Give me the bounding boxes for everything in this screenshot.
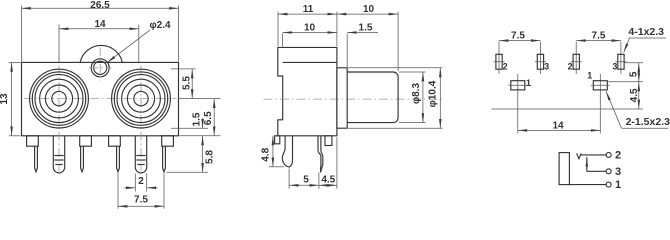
dim 4.5 [319,138,337,189]
dim 10 barrel [337,4,398,71]
hole centerline vertical [99,48,101,82]
tip contact V [577,153,582,158]
ext barrel top [399,71,426,73]
svg-text:13: 13 [0,93,10,105]
pin B [81,146,84,172]
pad R3 [618,54,624,69]
ext barrel bottom [399,122,426,124]
dim 5 legs [289,169,319,189]
svg-text:5.8: 5.8 [205,150,216,164]
right jack circles [112,69,171,128]
svg-text:5: 5 [303,175,309,186]
jack body [559,153,569,185]
label 4-1x2.3 leader [624,38,630,53]
ext body bottom right [180,135,221,137]
shoulder B [80,136,92,146]
right foot [325,136,332,146]
svg-text:6.5: 6.5 [203,111,214,125]
pin A [35,146,38,172]
dim phi10.4 [428,68,441,128]
left center pin serrations [54,156,63,165]
shoulder D [162,136,174,146]
svg-text:7.5: 7.5 [134,195,148,206]
side axis centerline [264,98,445,100]
svg-text:1.5: 1.5 [359,22,373,33]
pad R2 centerline [575,42,577,75]
svg-text:2: 2 [568,61,573,71]
shoulder C [109,136,121,146]
svg-text:14: 14 [94,19,106,30]
left jack circles [30,69,89,128]
svg-text:11: 11 [303,4,314,15]
svg-text:3: 3 [612,61,617,71]
side body top seam [283,61,337,63]
svg-text:2: 2 [615,149,621,161]
svg-text:2-1.5x2.3: 2-1.5x2.3 [626,116,670,128]
svg-text:4.5: 4.5 [629,88,640,102]
ext pad R3 row [625,62,644,64]
svg-text:10: 10 [304,22,316,33]
flange [337,68,347,128]
svg-text:3: 3 [544,61,549,71]
svg-text:26.5: 26.5 [90,0,110,11]
ext flange bottom right [348,127,442,129]
svg-text:3: 3 [615,166,621,178]
pad L3 [537,54,543,69]
ext pin tip right [167,171,209,173]
ext pad R1 row [608,81,644,83]
dim 10 body [283,22,337,46]
terminal 1 [606,182,611,187]
dim 1.5 flange [347,22,378,67]
body outline [22,62,179,135]
dim 7.5 right group [576,31,621,42]
left center pin [53,136,64,173]
pad L2 centerline [498,42,500,75]
hole centerline horizontal [89,67,112,69]
terminal 3 [606,169,611,174]
svg-text:4.5: 4.5 [321,175,335,186]
wire pin2 [581,154,607,156]
jacks horizontal centerline [24,98,177,100]
pad L1 centerline [517,74,519,134]
dim 2 [125,174,158,192]
right jack centerline [140,66,142,172]
ext flange top [171,68,196,70]
right center pin serrations [136,156,145,165]
svg-text:1: 1 [587,71,592,81]
barrel [347,72,398,123]
dim 7.5 left group [499,31,540,42]
baseline [492,108,644,110]
svg-text:4-1x2.3: 4-1x2.3 [628,26,664,38]
dim 4.5 pads [629,82,640,109]
pad R3 centerline [620,42,622,75]
dim 14 pads [518,120,601,131]
pad R1 [593,81,607,90]
left foot [275,136,280,144]
terminal 2 [606,152,611,157]
svg-text:2: 2 [138,176,144,187]
svg-text:4.8: 4.8 [261,147,272,161]
pad R2 [573,54,579,69]
shoulder A [27,136,39,146]
pad L3 centerline [539,42,541,75]
svg-text:1: 1 [526,78,531,88]
svg-text:1.5: 1.5 [192,112,203,126]
left jack centerline [58,66,60,172]
dim phi8.3 [411,72,423,123]
wire pin1 [567,184,606,186]
dim 7.5 [118,173,164,209]
mounting hole ring [91,59,109,77]
switch arm with arrow [586,157,588,171]
svg-text:14: 14 [552,120,564,131]
svg-text:7.5: 7.5 [511,31,525,42]
top bump [80,45,122,62]
pin D [163,146,166,172]
svg-text:7.5: 7.5 [592,31,606,42]
dim 1.5 [192,112,203,128]
dim 26.5 [22,0,179,61]
label 2-1.5x2.3 leader [606,91,622,128]
dim 5 pads [628,63,639,82]
ext jack axis right [178,98,221,100]
pad L2 [496,54,502,69]
leg 2 [318,136,323,173]
dim 5.8 [203,136,216,173]
label phi2.4 leader [107,30,150,63]
svg-text:φ2.4: φ2.4 [150,20,171,31]
pad R1 centerline [599,74,601,134]
ext flange top right [348,67,442,69]
mounting hole [94,61,107,74]
svg-text:φ10.4: φ10.4 [428,80,439,107]
pin C [117,146,120,172]
dim 6.5 [203,99,214,136]
pad L1 [511,81,525,90]
svg-text:2: 2 [503,61,508,71]
dim 13 [0,62,21,135]
side body outline [278,47,337,135]
dim 5.5 [182,69,193,99]
wire pin3 [587,170,606,172]
ext flange bottom [171,127,208,129]
svg-text:φ8.3: φ8.3 [411,83,422,104]
dim 14 [59,19,139,62]
svg-text:5.5: 5.5 [182,76,193,90]
right center pin [135,136,146,173]
svg-text:10: 10 [363,4,375,15]
leg 1 [282,136,292,167]
svg-text:5: 5 [628,71,639,77]
dim 11 [278,4,337,46]
dim 4.8 [261,136,285,167]
svg-text:1: 1 [615,179,621,191]
